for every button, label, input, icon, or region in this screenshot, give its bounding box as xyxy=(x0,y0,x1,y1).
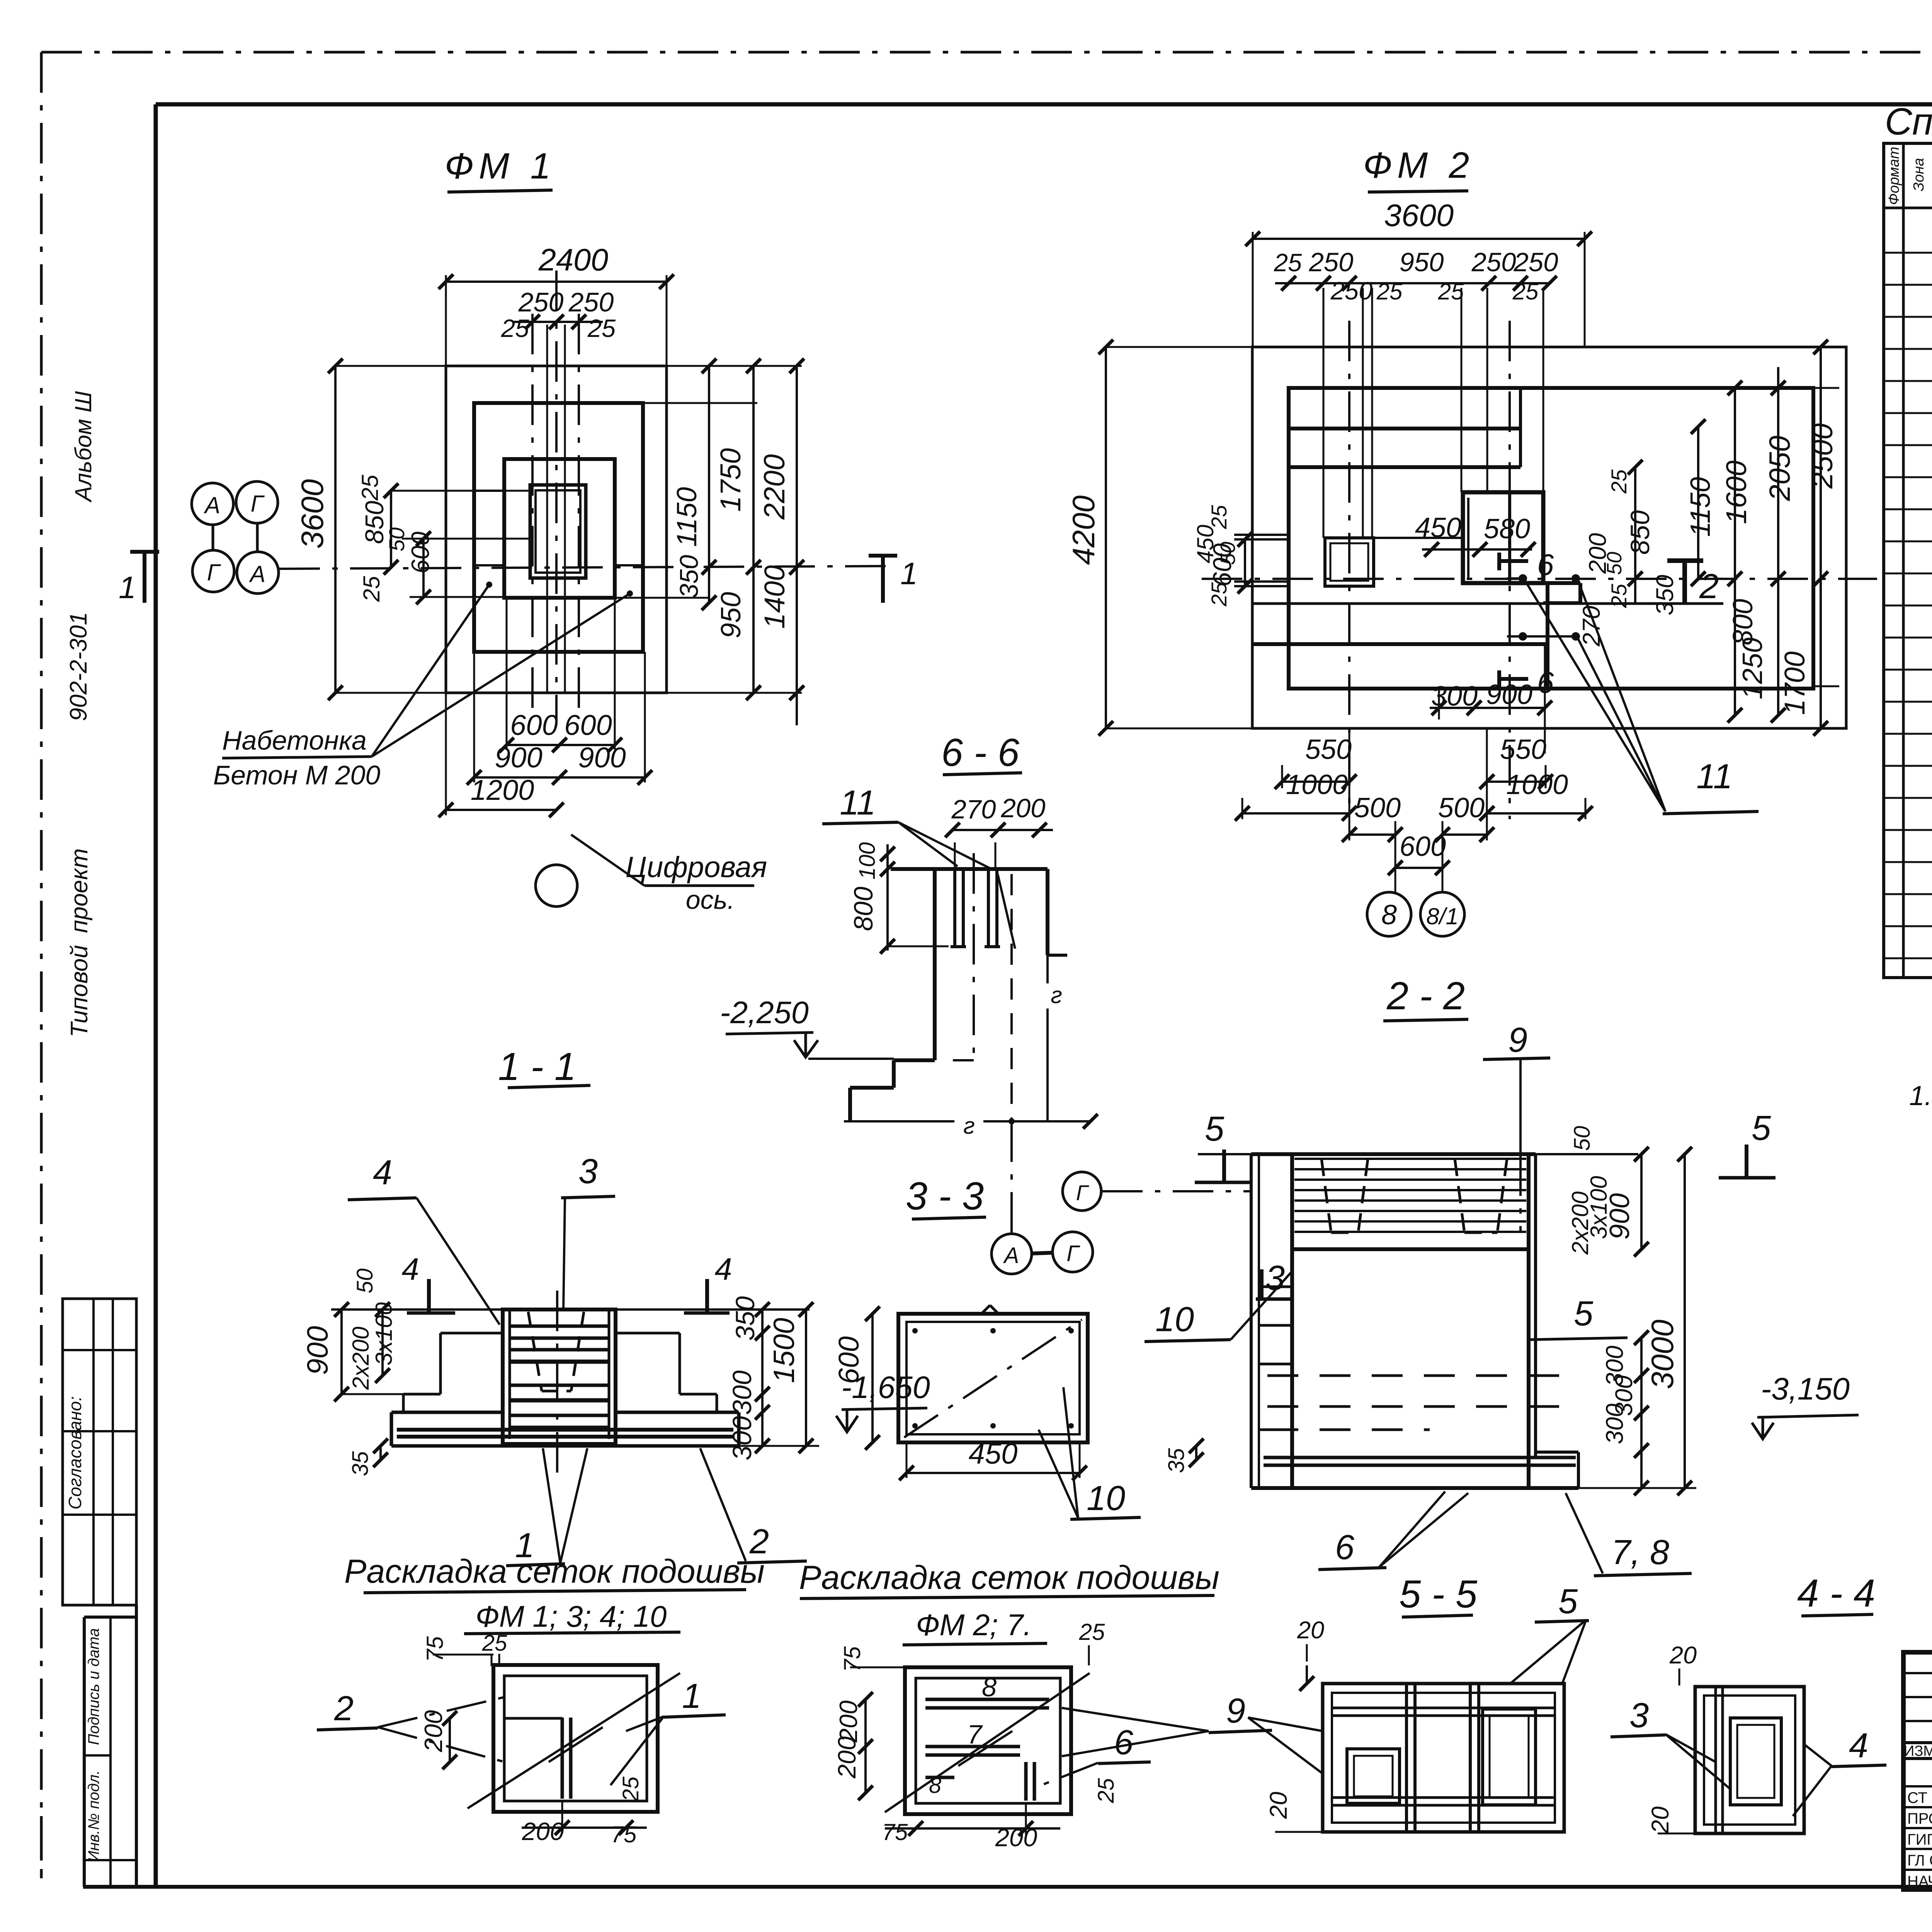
svg-text:2 - 2: 2 - 2 xyxy=(1386,975,1465,1018)
svg-text:1000: 1000 xyxy=(1506,769,1568,800)
leader label 1 bottom xyxy=(506,1448,587,1566)
svg-text:25: 25 xyxy=(1607,583,1631,608)
svg-text:25: 25 xyxy=(1512,279,1539,304)
dimensions right section 2-2 xyxy=(1536,1126,1696,1495)
svg-text:1500: 1500 xyxy=(768,1318,801,1383)
section mark 6 upper xyxy=(1499,548,1554,582)
dimension 35 section 2-2 xyxy=(1164,1439,1204,1473)
svg-text:ИЗМ: ИЗМ xyxy=(1904,1743,1932,1759)
svg-text:4: 4 xyxy=(373,1153,392,1192)
svg-text:50: 50 xyxy=(1603,552,1626,575)
svg-text:Спецификация для монолитных: Спецификация для монолитных элементов xyxy=(1885,100,1932,143)
svg-text:50: 50 xyxy=(352,1269,378,1294)
svg-text:г: г xyxy=(963,1113,975,1139)
svg-text:1150: 1150 xyxy=(1685,477,1716,537)
svg-text:11: 11 xyxy=(1696,757,1732,796)
svg-text:ФМ 2; 7.: ФМ 2; 7. xyxy=(916,1608,1032,1642)
svg-text:20: 20 xyxy=(1265,1792,1292,1819)
svg-text:900: 900 xyxy=(578,742,626,774)
svg-text:5: 5 xyxy=(1752,1109,1771,1148)
svg-text:1. Данный лист см. совмес: 1. Данный лист см. совместно с листами К… xyxy=(1909,1081,1932,1111)
svg-text:СТ ИНЖЕН: СТ ИНЖЕН xyxy=(1907,1789,1932,1806)
svg-text:25: 25 xyxy=(1274,248,1302,277)
svg-text:ось.: ось. xyxy=(686,885,735,915)
svg-text:НАЧ ОТД: НАЧ ОТД xyxy=(1907,1873,1932,1890)
svg-text:25: 25 xyxy=(501,314,529,342)
svg-text:Г: Г xyxy=(251,491,265,517)
svg-text:500: 500 xyxy=(1354,793,1401,823)
svg-text:Подпись и дата: Подпись и дата xyxy=(85,1628,102,1745)
section 2-2 body xyxy=(1198,1154,1638,1488)
anchor plate dots xyxy=(1507,574,1580,641)
svg-text:А: А xyxy=(1003,1243,1019,1268)
svg-text:Формат: Формат xyxy=(1886,147,1902,205)
svg-text:11: 11 xyxy=(840,784,876,822)
svg-text:2400: 2400 xyxy=(538,243,608,277)
dimensions FM2 bottom 550 1000 500 600 xyxy=(1235,728,1593,893)
leader label 3 section 1-1 xyxy=(561,1152,615,1310)
svg-text:А: А xyxy=(204,492,220,518)
svg-text:3: 3 xyxy=(578,1152,598,1191)
svg-text:4: 4 xyxy=(1849,1726,1868,1765)
svg-text:-2,250: -2,250 xyxy=(720,995,809,1030)
section 4-4 title xyxy=(1797,1572,1875,1616)
digit axis circle and label xyxy=(536,835,767,915)
svg-text:20: 20 xyxy=(1669,1642,1697,1669)
svg-text:Г: Г xyxy=(1066,1241,1080,1266)
svg-text:6: 6 xyxy=(1114,1723,1134,1762)
svg-text:500: 500 xyxy=(1438,793,1485,823)
dimensions section 4-4 xyxy=(1647,1642,1697,1834)
svg-text:250: 250 xyxy=(518,287,564,317)
svg-text:200: 200 xyxy=(1000,793,1045,823)
svg-text:Г: Г xyxy=(1076,1180,1089,1205)
leader label 9 section 2-2 xyxy=(1483,1021,1550,1155)
svg-text:450: 450 xyxy=(1192,525,1218,563)
svg-text:7: 7 xyxy=(967,1719,983,1749)
svg-text:Альбом Ш: Альбом Ш xyxy=(70,391,96,502)
svg-text:ФМ 2: ФМ 2 xyxy=(1363,145,1475,186)
svg-text:1: 1 xyxy=(682,1677,701,1716)
svg-text:1200: 1200 xyxy=(471,774,534,806)
sidebar table Podpis i data / Inv No podl xyxy=(84,1605,136,1887)
svg-text:25: 25 xyxy=(482,1631,507,1656)
axis circle G section 2-2 xyxy=(1063,1172,1252,1211)
leader label 6 bottom section 2-2 xyxy=(1318,1492,1468,1570)
dimensions 100 800 section 6-6 xyxy=(849,842,949,954)
svg-text:25: 25 xyxy=(1207,582,1231,607)
svg-text:6: 6 xyxy=(1537,548,1554,582)
svg-text:900: 900 xyxy=(1486,679,1532,710)
svg-text:г: г xyxy=(1051,982,1062,1008)
section 1-1 body xyxy=(331,1291,810,1476)
svg-text:450: 450 xyxy=(969,1437,1018,1470)
svg-text:4: 4 xyxy=(401,1252,419,1287)
svg-text:Г: Г xyxy=(207,560,221,585)
svg-text:2500: 2500 xyxy=(1806,423,1839,489)
svg-text:Инв.№ подл.: Инв.№ подл. xyxy=(85,1770,102,1862)
svg-text:75: 75 xyxy=(882,1819,908,1845)
svg-text:100: 100 xyxy=(855,842,880,880)
svg-text:Согласовано:: Согласовано: xyxy=(65,1396,85,1509)
section mark 2 right xyxy=(1667,561,1719,606)
section 2-2 title xyxy=(1383,975,1468,1021)
svg-text:5: 5 xyxy=(1558,1582,1578,1621)
section marks 5 top section 2-2 xyxy=(1195,1109,1776,1182)
section 6-6 title xyxy=(941,731,1022,775)
svg-text:25: 25 xyxy=(1207,505,1231,529)
svg-text:250: 250 xyxy=(1308,247,1353,277)
svg-text:250: 250 xyxy=(568,287,614,317)
svg-text:1: 1 xyxy=(900,556,918,591)
label Nabetonka Beton M 200 xyxy=(213,582,633,790)
section mark 1 left xyxy=(119,552,159,605)
svg-text:50: 50 xyxy=(1216,542,1240,565)
svg-text:ФМ 1; 3; 4; 10: ФМ 1; 3; 4; 10 xyxy=(476,1599,667,1633)
svg-text:3600: 3600 xyxy=(295,479,330,549)
plan FM2 title xyxy=(1363,145,1475,192)
svg-text:250: 250 xyxy=(1330,277,1372,305)
title block signature rows xyxy=(1907,1788,1932,1890)
svg-text:300: 300 xyxy=(727,1416,757,1460)
svg-text:8: 8 xyxy=(929,1773,941,1798)
svg-text:25: 25 xyxy=(1607,469,1631,494)
svg-text:8/1: 8/1 xyxy=(1426,903,1458,929)
svg-text:ПРОВЕР: ПРОВЕР xyxy=(1907,1810,1932,1827)
dimensions FM2 bottom 300 900 xyxy=(1430,644,1552,753)
leader label 11 section 6-6 xyxy=(822,784,990,868)
section 5-5 title xyxy=(1399,1573,1478,1617)
level mark -3,150 xyxy=(1752,1372,1859,1439)
svg-text:3: 3 xyxy=(1265,1259,1285,1298)
svg-text:250: 250 xyxy=(1513,247,1558,277)
mesh layout title right xyxy=(799,1559,1219,1645)
dimensions small left 25 850 50 600 25 xyxy=(357,474,530,604)
svg-text:ГЛ СПЕЦ: ГЛ СПЕЦ xyxy=(1907,1852,1932,1869)
leader label 10 section 3-3 xyxy=(1039,1387,1141,1519)
dimensions section 5-5 xyxy=(1265,1617,1324,1832)
svg-text:4200: 4200 xyxy=(1066,495,1101,565)
svg-text:ГИП: ГИП xyxy=(1907,1831,1932,1848)
svg-text:200: 200 xyxy=(419,1710,447,1752)
plan FM2 outline xyxy=(1234,347,1846,728)
svg-text:900: 900 xyxy=(1604,1193,1635,1240)
dimensions FM2 center 450 580 xyxy=(1415,512,1536,557)
svg-text:25: 25 xyxy=(618,1776,643,1802)
svg-text:850: 850 xyxy=(1625,510,1655,554)
dimensions mesh FM2 xyxy=(833,1619,1119,1852)
plan FM1 title xyxy=(445,146,556,192)
leader label 2 bottom xyxy=(700,1448,807,1563)
leader label 4 section 4-4 xyxy=(1793,1726,1886,1816)
svg-text:800: 800 xyxy=(849,886,878,931)
mesh layout title left xyxy=(344,1553,765,1634)
svg-text:5: 5 xyxy=(1574,1294,1594,1333)
svg-text:3 - 3: 3 - 3 xyxy=(906,1175,984,1218)
svg-text:Раскладка сеток подошвы: Раскладка сеток подошвы xyxy=(344,1553,765,1590)
dimensions right 1150 1750 2200 350 950 1400 xyxy=(615,359,804,725)
svg-text:25: 25 xyxy=(1094,1778,1119,1803)
svg-text:ФМ 1: ФМ 1 xyxy=(445,146,556,187)
svg-text:6: 6 xyxy=(1335,1528,1355,1567)
svg-text:25: 25 xyxy=(1376,279,1403,304)
svg-text:Типовой проект: Типовой проект xyxy=(66,848,93,1037)
section mark 4 left xyxy=(401,1252,455,1313)
section 3-3 title xyxy=(906,1175,986,1219)
svg-text:8: 8 xyxy=(982,1672,997,1702)
section 3-3 body xyxy=(898,1305,1088,1442)
svg-text:8: 8 xyxy=(1381,900,1397,930)
leader label 4 section 1-1 xyxy=(348,1153,500,1325)
svg-text:2200: 2200 xyxy=(758,454,791,520)
svg-text:20: 20 xyxy=(1647,1806,1674,1834)
svg-text:35: 35 xyxy=(1164,1448,1189,1473)
dimensions section 3-3 xyxy=(833,1306,1087,1480)
plan FM1 axis circles A G xyxy=(192,481,279,594)
leader label 11 FM2 xyxy=(1525,581,1759,814)
section 1-1 title xyxy=(498,1045,590,1088)
sidebar table Soglasovano xyxy=(63,1299,136,1605)
svg-text:900: 900 xyxy=(495,742,542,774)
svg-text:902-2-301: 902-2-301 xyxy=(65,612,92,721)
section mark 6 lower xyxy=(1499,665,1554,699)
axis circles 8 and 8/1 xyxy=(1367,892,1464,936)
svg-text:25: 25 xyxy=(1438,279,1464,304)
section 5-5 body xyxy=(1323,1684,1564,1832)
dimensions FM2 left small 600 450 50 25 xyxy=(1192,505,1252,607)
dimension 3600 left xyxy=(295,359,446,700)
svg-text:600: 600 xyxy=(833,1336,865,1384)
svg-text:600: 600 xyxy=(510,709,558,741)
svg-text:25: 25 xyxy=(1079,1619,1105,1645)
svg-text:50: 50 xyxy=(1570,1126,1595,1151)
dimension 3600 FM2 top xyxy=(1245,198,1592,347)
svg-text:6 - 6: 6 - 6 xyxy=(941,731,1020,774)
svg-text:Набетонка: Набетонка xyxy=(222,725,367,755)
svg-text:35: 35 xyxy=(348,1451,373,1476)
svg-text:450: 450 xyxy=(1415,512,1461,543)
svg-text:1700: 1700 xyxy=(1779,651,1811,715)
svg-text:550: 550 xyxy=(1305,734,1352,765)
mesh layout FM2 drawing xyxy=(885,1667,1090,1814)
svg-text:2050: 2050 xyxy=(1764,435,1796,501)
svg-text:75: 75 xyxy=(611,1821,637,1847)
axis circles A G section 6-6 xyxy=(992,1121,1093,1274)
svg-text:5: 5 xyxy=(1205,1110,1225,1148)
dimension 2400 top xyxy=(439,243,674,366)
leader label 10 3 section 2-2 xyxy=(1145,1259,1292,1342)
svg-text:900: 900 xyxy=(301,1326,334,1375)
svg-text:550: 550 xyxy=(1500,734,1546,765)
svg-text:1750: 1750 xyxy=(714,448,747,512)
dimension 35 bottom left xyxy=(348,1439,388,1476)
section mark 1 right xyxy=(869,556,918,603)
plan FM2 axes xyxy=(1202,288,1877,819)
dimensions right section 1-1 xyxy=(727,1296,819,1460)
title block grid xyxy=(1903,1652,1932,1889)
svg-text:75: 75 xyxy=(422,1636,448,1662)
svg-text:2x200: 2x200 xyxy=(348,1327,374,1390)
mesh layout FM1 drawing xyxy=(468,1665,680,1812)
svg-text:950: 950 xyxy=(1399,247,1444,277)
svg-text:250: 250 xyxy=(1471,247,1516,277)
leader label 7,8 bottom section 2-2 xyxy=(1566,1493,1692,1576)
svg-text:1: 1 xyxy=(119,570,136,605)
dimension 4200 FM2 left xyxy=(1066,340,1252,736)
svg-text:1 - 1: 1 - 1 xyxy=(498,1045,576,1088)
leader label 6 mesh FM2 xyxy=(1043,1723,1151,1784)
svg-text:9: 9 xyxy=(1508,1021,1527,1060)
svg-text:20: 20 xyxy=(1297,1617,1324,1644)
dimensions 270 200 section 6-6 xyxy=(945,793,1053,869)
svg-text:350: 350 xyxy=(675,555,704,598)
svg-text:1600: 1600 xyxy=(1720,461,1752,524)
level mark -2,250 xyxy=(720,995,894,1059)
section 4-4 body xyxy=(1695,1687,1804,1833)
level mark -1,650 xyxy=(836,1370,930,1432)
dimensions left section 1-1 xyxy=(301,1269,403,1401)
leader label 2 mesh FM1 xyxy=(317,1689,505,1762)
leader label 3 section 4-4 xyxy=(1611,1696,1730,1789)
svg-text:9: 9 xyxy=(1226,1692,1245,1730)
svg-text:600: 600 xyxy=(1400,831,1446,862)
svg-text:1000: 1000 xyxy=(1286,769,1348,800)
svg-text:3000: 3000 xyxy=(1645,1320,1680,1389)
svg-text:1400: 1400 xyxy=(759,565,791,629)
svg-text:950: 950 xyxy=(716,592,747,638)
section 6-6 profile xyxy=(844,853,1098,1139)
svg-text:600: 600 xyxy=(564,709,612,741)
svg-text:270: 270 xyxy=(951,794,996,824)
specification table grid xyxy=(1884,143,1932,978)
svg-text:10: 10 xyxy=(1155,1300,1194,1339)
svg-text:350: 350 xyxy=(730,1296,760,1340)
svg-text:4 - 4: 4 - 4 xyxy=(1797,1572,1875,1615)
svg-text:200: 200 xyxy=(833,1736,861,1779)
svg-text:А: А xyxy=(249,561,265,587)
svg-text:25: 25 xyxy=(357,474,383,501)
leader label 5 mid right xyxy=(1530,1294,1628,1340)
svg-text:3600: 3600 xyxy=(1384,198,1454,233)
svg-text:5 - 5: 5 - 5 xyxy=(1399,1573,1478,1616)
svg-text:300: 300 xyxy=(1601,1403,1628,1444)
dimensions mesh FM1 xyxy=(419,1631,647,1847)
dimensions FM2 top rows 25 250 950 250 250 xyxy=(1274,247,1558,305)
dimension 250 250 top xyxy=(501,287,616,342)
specification table headers xyxy=(1886,147,1932,205)
leader label 1 mesh FM1 xyxy=(611,1677,726,1785)
title block header row xyxy=(1904,1743,1932,1759)
svg-text:25: 25 xyxy=(359,576,384,602)
svg-text:1250: 1250 xyxy=(1737,638,1768,699)
leader label 5 section 5-5 xyxy=(1509,1582,1589,1685)
svg-text:Зона: Зона xyxy=(1911,158,1927,192)
svg-text:-3,150: -3,150 xyxy=(1761,1372,1850,1406)
svg-text:10: 10 xyxy=(1087,1479,1125,1518)
svg-text:25: 25 xyxy=(587,314,616,342)
svg-text:350: 350 xyxy=(1651,575,1679,615)
svg-text:Бетон М 200: Бетон М 200 xyxy=(213,760,381,790)
svg-text:3: 3 xyxy=(1629,1696,1649,1735)
svg-text:580: 580 xyxy=(1484,514,1530,544)
svg-text:Раскладка сеток подошвы: Раскладка сеток подошвы xyxy=(799,1559,1219,1596)
svg-text:1150: 1150 xyxy=(672,487,702,547)
leader label 7 section 5-5 left xyxy=(1248,1718,1323,1774)
svg-text:4: 4 xyxy=(714,1252,732,1287)
svg-text:Цифровая: Цифровая xyxy=(626,851,767,884)
plan FM1 axis lines xyxy=(279,270,887,723)
leader label 9 mesh FM2 xyxy=(1062,1692,1272,1756)
svg-text:300: 300 xyxy=(727,1370,757,1415)
svg-text:3x100: 3x100 xyxy=(371,1302,397,1365)
plan FM1 outline rectangles xyxy=(446,366,667,693)
svg-text:7, 8: 7, 8 xyxy=(1611,1533,1669,1572)
dimensions bottom 600 600 / 900 900 / 1200 xyxy=(439,598,652,817)
dimensions FM2 right verticals 850 1150 1600 2050 2500 xyxy=(1578,340,1839,736)
svg-text:2: 2 xyxy=(334,1689,354,1728)
section mark 4 right xyxy=(684,1252,732,1313)
